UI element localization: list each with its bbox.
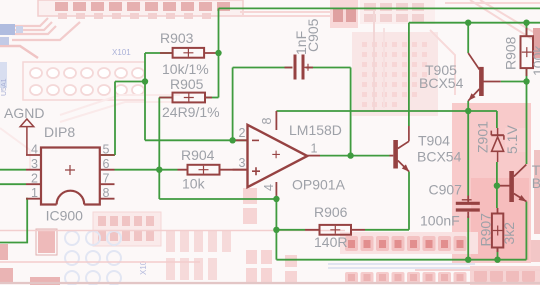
svg-text:4: 4 [31,143,38,157]
svg-text:T904: T904 [418,133,450,149]
svg-text:24R9/1%: 24R9/1% [162,104,220,120]
svg-text:BCX54: BCX54 [419,75,464,91]
svg-text:1: 1 [31,186,38,200]
svg-text:2: 2 [31,172,38,186]
svg-text:140R: 140R [314,234,347,250]
svg-text:C907: C907 [429,182,463,198]
svg-text:6: 6 [103,157,110,171]
svg-text:AGND: AGND [4,105,44,121]
svg-text:X101: X101 [112,48,131,57]
svg-text:LM158D: LM158D [289,122,342,138]
svg-text:R906: R906 [314,204,348,220]
svg-text:8: 8 [103,186,110,200]
svg-text:3k2: 3k2 [501,222,517,245]
svg-text:DIP8: DIP8 [44,124,75,140]
svg-text:10k: 10k [182,176,206,192]
svg-text:3: 3 [31,157,38,171]
svg-text:3: 3 [239,156,246,170]
svg-text:7: 7 [103,172,110,186]
svg-text:5.1V: 5.1V [504,125,520,154]
svg-text:2: 2 [239,126,246,140]
svg-text:8: 8 [260,118,274,125]
svg-text:OP901A: OP901A [292,177,346,193]
svg-text:R905: R905 [170,76,204,92]
svg-text:R907: R907 [478,213,494,247]
svg-text:BCX54: BCX54 [532,175,540,191]
svg-text:R904: R904 [181,147,215,163]
svg-text:100nF: 100nF [420,213,460,229]
svg-text:R908: R908 [503,36,519,70]
svg-text:1: 1 [311,142,318,156]
svg-text:100k: 100k [530,45,540,76]
svg-text:R903: R903 [160,30,194,46]
svg-text:IC900: IC900 [46,207,84,223]
svg-text:U5A1: U5A1 [1,78,8,96]
svg-text:C905: C905 [305,18,321,52]
svg-text:BCX54: BCX54 [417,149,462,165]
svg-text:5: 5 [103,143,110,157]
svg-text:Z901: Z901 [475,121,491,153]
svg-text:10k/1%: 10k/1% [162,61,209,77]
svg-text:4: 4 [262,184,276,191]
